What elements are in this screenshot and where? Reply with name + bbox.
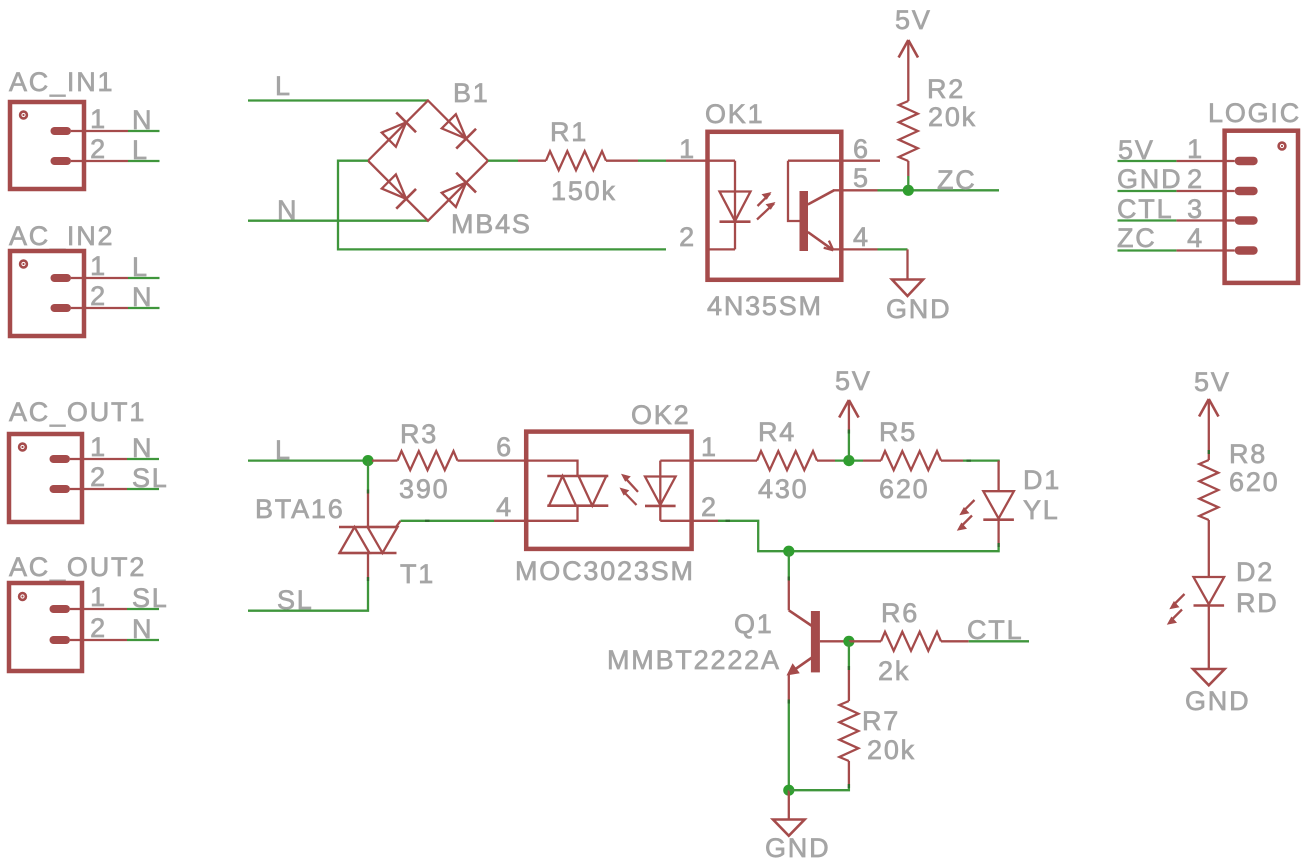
wire net SL (AC_OUT1 pin 2) (127, 463, 169, 493)
connector AC_OUT2 (9, 552, 146, 671)
svg-text:1: 1 (90, 104, 107, 134)
triac T1 BTA16 (255, 490, 435, 590)
svg-text:6: 6 (853, 134, 870, 164)
svg-text:2: 2 (90, 134, 107, 164)
svg-text:2k: 2k (878, 656, 910, 686)
svg-text:D2: D2 (1236, 557, 1274, 587)
svg-text:GND: GND (1185, 686, 1250, 716)
wire L (bottom) (248, 435, 368, 465)
wire net L (AC_IN2 pin 1) (128, 252, 160, 282)
svg-text:2: 2 (1187, 164, 1204, 194)
svg-text:R3: R3 (400, 419, 438, 449)
svg-text:Q1: Q1 (734, 609, 774, 639)
wire R4 to R5 node (835, 459, 863, 461)
wire L to T1 (367, 461, 369, 490)
svg-text:430: 430 (758, 474, 808, 504)
svg-text:R1: R1 (550, 117, 588, 147)
junction node 5V mid (843, 455, 854, 466)
connector AC_OUT1 (9, 397, 146, 522)
svg-text:L: L (275, 435, 292, 465)
svg-text:2: 2 (90, 613, 107, 643)
transistor Q1 MMBT2222A (607, 577, 849, 701)
svg-text:RD: RD (1236, 588, 1279, 618)
svg-text:N: N (132, 614, 153, 644)
svg-text:1: 1 (701, 432, 718, 462)
svg-text:D1: D1 (1023, 465, 1061, 495)
svg-text:N: N (277, 195, 298, 225)
diode B1 upper-left (379, 112, 416, 149)
wire net CTL (LOGIC pin 3) (1117, 194, 1176, 224)
connector LOGIC (1176, 98, 1301, 283)
wire net N (AC_IN1 pin 1) (128, 105, 160, 135)
svg-text:YL: YL (1023, 495, 1060, 525)
ground GND (OK1) (886, 249, 951, 324)
wire N (top) (248, 195, 428, 225)
svg-text:5V: 5V (1194, 367, 1231, 397)
resistor R4 430 (757, 417, 835, 504)
svg-text:T1: T1 (400, 559, 435, 589)
svg-text:MOC3023SM: MOC3023SM (515, 556, 695, 586)
svg-text:20k: 20k (867, 735, 916, 765)
wire Q1 emitter to GND node (788, 701, 790, 791)
svg-text:SL: SL (132, 583, 169, 613)
svg-text:R4: R4 (758, 417, 796, 447)
junction ZC node (903, 185, 914, 196)
LED D1 YL (957, 461, 1061, 547)
svg-text:R7: R7 (862, 706, 900, 736)
svg-text:ZC: ZC (1117, 223, 1157, 253)
svg-text:R2: R2 (927, 74, 965, 104)
supply 5V (mid) (835, 366, 872, 461)
svg-text:4: 4 (496, 492, 513, 522)
resistor R2 20k (899, 42, 977, 190)
junction node GND (Q1) (783, 785, 794, 796)
svg-text:SL: SL (132, 463, 169, 493)
svg-text:5: 5 (853, 163, 870, 193)
svg-text:L: L (275, 71, 292, 101)
resistor R7 20k (839, 641, 916, 786)
resistor R5 620 (863, 417, 963, 504)
wire L (top) (248, 71, 428, 101)
wire R5 to D1 (963, 461, 999, 462)
svg-text:1: 1 (90, 432, 107, 462)
svg-text:MB4S: MB4S (451, 209, 532, 239)
svg-text:1: 1 (90, 582, 107, 612)
wire net GND (LOGIC pin 2) (1117, 164, 1182, 194)
diode B1 upper-right (439, 111, 476, 148)
svg-text:5V: 5V (835, 366, 872, 396)
wire net L (AC_IN1 pin 2) (128, 135, 160, 165)
resistor R6 2k (849, 598, 969, 686)
svg-text:LOGIC: LOGIC (1208, 98, 1301, 128)
wire ZC (878, 165, 1000, 195)
svg-text:R8: R8 (1229, 439, 1267, 469)
junction node Q1 base (843, 636, 854, 647)
svg-text:2: 2 (679, 222, 696, 252)
svg-text:MMBT2222A: MMBT2222A (607, 645, 781, 675)
OK2 pin 1 lead to R4 (692, 459, 757, 461)
wire net SL (AC_OUT2 pin 1) (127, 583, 169, 613)
wire bridge plus to R1 (488, 160, 518, 162)
svg-text:L: L (132, 252, 149, 282)
svg-text:AC_IN1: AC_IN1 (9, 67, 114, 97)
wire CTL (967, 615, 1029, 645)
svg-text:2: 2 (701, 492, 718, 522)
supply 5V (right) (1194, 367, 1231, 460)
svg-text:R6: R6 (881, 598, 919, 628)
svg-text:CTL: CTL (967, 615, 1023, 645)
svg-text:4: 4 (1187, 223, 1204, 253)
svg-text:L: L (132, 135, 149, 165)
svg-text:2: 2 (90, 462, 107, 492)
wire junction to Q1 collector (788, 551, 790, 576)
svg-text:2: 2 (90, 281, 107, 311)
svg-text:5V: 5V (1118, 135, 1155, 165)
wire SL (248, 579, 368, 616)
svg-text:620: 620 (879, 474, 929, 504)
wire net 5V (LOGIC pin 1) (1118, 135, 1177, 165)
svg-text:20k: 20k (928, 102, 977, 132)
ground GND (Q1) (765, 790, 830, 863)
svg-text:GND: GND (765, 833, 830, 863)
svg-text:6: 6 (496, 432, 513, 462)
supply 5V (R2) (895, 5, 932, 58)
svg-text:GND: GND (1117, 164, 1182, 194)
svg-text:4: 4 (853, 222, 870, 252)
svg-text:ZC: ZC (937, 165, 977, 195)
svg-text:OK1: OK1 (705, 99, 764, 129)
bridge rectifier B1 MB4S (368, 78, 532, 239)
svg-text:AC_IN2: AC_IN2 (9, 221, 114, 251)
wire OK2 pin 2 to junction (718, 521, 789, 551)
svg-text:1: 1 (90, 251, 107, 281)
svg-text:3: 3 (1187, 194, 1204, 224)
wire OK1 pin 4 to GND (878, 248, 908, 250)
connector AC_IN2 (9, 221, 128, 336)
svg-text:AC_OUT1: AC_OUT1 (9, 397, 146, 427)
svg-text:1: 1 (1187, 134, 1204, 164)
OK2 pin 2 lead (692, 520, 718, 522)
LED D2 RD (1167, 557, 1279, 669)
ground GND (right) (1185, 669, 1250, 716)
wire net N (AC_OUT2 pin 2) (127, 614, 159, 644)
svg-text:1: 1 (679, 134, 696, 164)
wire tick marks (368, 430, 1209, 789)
connector AC_IN1 (9, 67, 128, 189)
svg-text:BTA16: BTA16 (255, 494, 345, 524)
svg-text:4N35SM: 4N35SM (707, 291, 823, 321)
svg-text:CTL: CTL (1117, 194, 1173, 224)
resistor R1 150k (518, 117, 638, 206)
svg-text:N: N (132, 105, 153, 135)
junction node L / T1 (362, 455, 373, 466)
wire R7 bottom to GND node (789, 786, 849, 790)
resistor R3 390 (372, 419, 527, 504)
wire net N (AC_OUT1 pin 1) (127, 433, 159, 463)
svg-text:N: N (132, 433, 153, 463)
wire D1 to junction row (789, 547, 999, 551)
diode B1 lower-left (379, 172, 416, 209)
svg-text:N: N (132, 282, 153, 312)
svg-text:150k: 150k (551, 176, 617, 206)
svg-text:AC_OUT2: AC_OUT2 (9, 552, 146, 582)
svg-text:R5: R5 (879, 417, 917, 447)
svg-text:GND: GND (886, 294, 951, 324)
OK2 pin 4 lead (494, 520, 527, 522)
svg-text:390: 390 (399, 474, 449, 504)
svg-text:5V: 5V (895, 5, 932, 35)
wire net ZC (LOGIC pin 4) (1117, 223, 1176, 253)
svg-text:SL: SL (277, 585, 314, 615)
wire R1 to OK1 pin 1 (638, 160, 666, 162)
svg-text:OK2: OK2 (631, 400, 690, 430)
wire net N (AC_IN2 pin 2) (128, 282, 160, 312)
diode B1 lower-right (439, 173, 476, 210)
wire bridge minus to OK1 pin 2 (338, 161, 666, 250)
wire T1 gate to OK2 pin 4 (401, 520, 495, 522)
junction node Q1 collector (783, 546, 794, 557)
resistor R8 620 (1199, 439, 1279, 577)
optocoupler OK1 4N35SM (666, 99, 880, 321)
svg-text:B1: B1 (453, 78, 490, 108)
optocoupler OK2 MOC3023SM (496, 400, 718, 586)
svg-text:620: 620 (1229, 467, 1279, 497)
